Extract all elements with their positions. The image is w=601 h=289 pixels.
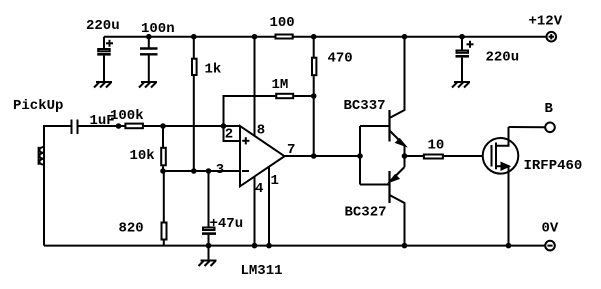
- resistor 1k (vertical): [192, 37, 197, 171]
- wire bottom 0V rail: [44, 245, 545, 247]
- node out-base: [357, 153, 363, 159]
- wire base stub bottom: [360, 184, 389, 186]
- svg-text:100n: 100n: [141, 21, 175, 37]
- capacitor 220u (right electrolytic): [456, 37, 474, 82]
- svg-text:7: 7: [287, 142, 295, 158]
- node rail-100n: [146, 34, 152, 40]
- wire pin1: [268, 167, 270, 246]
- svg-text:1M: 1M: [272, 77, 289, 93]
- resistor 100k (horizontal): [125, 124, 142, 129]
- MOSFET Q3 IRFP460: [483, 127, 519, 246]
- node rail0-BC327: [402, 243, 408, 249]
- wire feedback from pin2 node: [224, 96, 277, 126]
- ground (bottom, below rail): [199, 246, 217, 266]
- svg-text:BC337: BC337: [344, 98, 386, 114]
- capacitor 100n: [140, 37, 158, 82]
- wire base stub top: [360, 125, 389, 127]
- node rail-470: [311, 34, 317, 40]
- node rail-pin8: [252, 34, 258, 40]
- capacitor 220u (left electrolytic): [97, 37, 113, 82]
- svg-text:IRFP460: IRFP460: [524, 158, 583, 174]
- wire pin2 jog: [224, 126, 241, 141]
- svg-text:B: B: [545, 101, 554, 117]
- node rail0-pin4: [252, 243, 258, 249]
- transistor Q2 BC327: [390, 156, 405, 246]
- ground (left 220u): [94, 82, 112, 88]
- resistor 10k (vertical): [161, 126, 166, 171]
- inductor pickup coil: [39, 147, 44, 165]
- svg-text:470: 470: [328, 51, 353, 67]
- resistor 100 (horizontal, on rail): [276, 35, 293, 39]
- ground (100n): [139, 82, 157, 88]
- ground (right 220u): [452, 82, 470, 88]
- svg-text:1: 1: [271, 173, 279, 189]
- wire pin3 row: [163, 170, 240, 172]
- svg-text:4: 4: [255, 181, 263, 197]
- svg-text:0V: 0V: [542, 221, 559, 237]
- svg-text:+12V: +12V: [529, 14, 563, 30]
- svg-text:2: 2: [225, 127, 233, 143]
- resistor 470 (vertical): [312, 37, 316, 156]
- wire drain to B terminal: [509, 126, 546, 128]
- svg-text:1k: 1k: [205, 62, 222, 78]
- terminal 0V: [545, 241, 555, 251]
- svg-text:100: 100: [270, 15, 295, 31]
- capacitor 47u (electrolytic): [202, 171, 216, 246]
- wire base link vertical: [359, 126, 361, 185]
- resistor 10 (horizontal): [424, 155, 443, 159]
- node rail0-pin1: [266, 243, 272, 249]
- terminal B: [545, 123, 555, 133]
- capacitor 1uF: [72, 120, 125, 135]
- node rail-1k: [191, 34, 197, 40]
- node pin2-10k: [160, 123, 166, 129]
- svg-text:BC327: BC327: [345, 205, 387, 221]
- svg-text:10: 10: [428, 138, 445, 154]
- node out-470: [311, 153, 317, 159]
- node rail-BC337: [402, 34, 408, 40]
- transistor Q1 BC337: [390, 37, 405, 156]
- node pin3-10k: [160, 168, 166, 174]
- op-amp minus mark: [242, 170, 249, 172]
- wire pickup left branch: [44, 126, 71, 246]
- node pin3-1k: [191, 168, 197, 174]
- wire output to gate resistor: [405, 155, 424, 157]
- svg-text:220u: 220u: [86, 18, 120, 34]
- resistor 1M (horizontal): [276, 94, 293, 98]
- op-amp plus mark: [242, 137, 249, 144]
- node pin2-feedback: [221, 123, 227, 129]
- wire pin8: [254, 37, 256, 137]
- node pin3-47u: [206, 168, 212, 174]
- node 1M-470: [311, 93, 317, 99]
- svg-text:3: 3: [216, 162, 224, 178]
- node rail0-gnd: [206, 243, 212, 249]
- node out-emitters: [402, 153, 408, 159]
- svg-text:820: 820: [119, 221, 144, 237]
- terminal +12V: [547, 32, 557, 42]
- svg-text:+47u: +47u: [210, 216, 244, 232]
- resistor 820 (vertical): [162, 171, 167, 246]
- node rail-220u: [459, 34, 465, 40]
- node 1uF-100k: [116, 123, 122, 129]
- wire top +12V rail: [104, 36, 547, 38]
- op-amp U1 LM311 triangle: [240, 126, 285, 186]
- svg-text:100k: 100k: [110, 108, 144, 124]
- svg-text:220u: 220u: [486, 50, 520, 66]
- wire pin7 output: [285, 155, 361, 157]
- svg-text:LM311: LM311: [241, 263, 283, 279]
- wire pin4: [254, 177, 256, 246]
- svg-text:PickUp: PickUp: [13, 98, 63, 114]
- svg-text:10k: 10k: [130, 148, 155, 164]
- svg-text:8: 8: [257, 123, 265, 139]
- node rail0-source: [506, 243, 512, 249]
